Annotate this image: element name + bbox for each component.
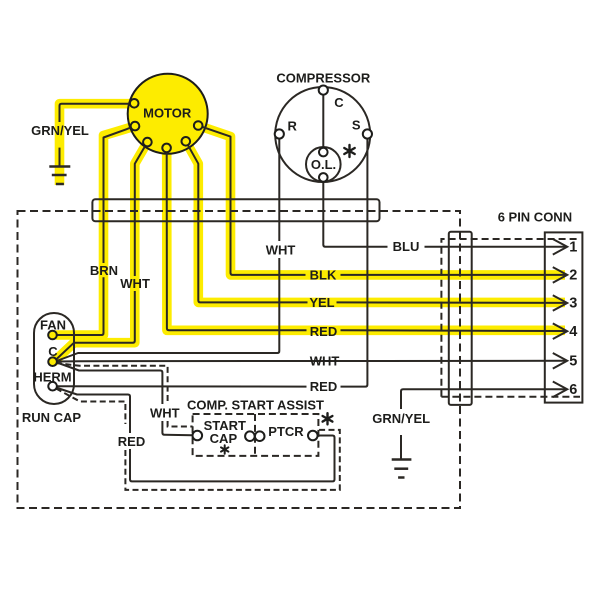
svg-text:RUN CAP: RUN CAP [22,410,82,425]
run cap terminal FAN [48,331,57,340]
svg-text:WHT: WHT [120,276,150,291]
wire WHT run cap C to start cap [57,363,162,405]
wire RED compressor S to HERM [341,139,368,387]
compressor body fill [275,87,370,182]
compressor outline [275,87,370,182]
svg-text:3: 3 [569,296,577,312]
svg-text:RED: RED [118,434,145,449]
pin 1 arrow [553,239,567,255]
motor terminal GRN/YEL [130,99,139,108]
wire BLK motor to pin 2 [198,126,305,275]
svg-text:MOTOR: MOTOR [143,105,192,120]
wire RED HERM to PTCR loop [56,388,130,434]
6 pin connector box [545,232,583,402]
svg-text:R: R [288,119,298,134]
compressor terminal S [363,129,372,138]
O.L. terminal top [319,148,328,157]
svg-text:5: 5 [569,354,577,370]
svg-text:S: S [352,117,361,132]
connector bar [449,232,472,405]
svg-text:HERM: HERM [33,370,71,385]
svg-text:WHT: WHT [266,243,296,258]
wire RED highlight [167,148,565,330]
svg-text:RED: RED [310,379,337,394]
motor terminal BLK [194,121,203,130]
pin 2 arrow [553,267,567,283]
svg-text:BLK: BLK [310,268,337,283]
svg-text:4: 4 [569,324,577,340]
wire YEL highlight [186,141,565,302]
wire WHT compressor R to run cap C [278,139,280,241]
wire BLU O.L. to pin 1 [323,177,387,246]
svg-text:C: C [334,95,344,110]
svg-text:BLU: BLU [393,239,420,254]
wire WHT motor to C [55,291,135,361]
svg-text:C: C [48,344,58,359]
svg-text:CAP: CAP [210,431,238,446]
svg-text:O.L.: O.L. [311,157,336,172]
pin 5 arrow [553,353,567,369]
wire WHT motor highlight [54,142,147,361]
wire WHT run cap C to pin 5 [57,360,567,363]
wire GRN/YEL highlight [60,104,135,185]
wire BRN highlight [56,126,135,335]
asterisk start assist box corner [323,413,333,424]
svg-text:YEL: YEL [309,295,334,310]
motor terminal WHT [143,138,152,147]
pin 3 arrow [553,295,567,311]
wire RED motor to pin 4 [167,148,307,330]
run cap RC outline [34,313,74,404]
ground symbol bottom-right [392,458,412,461]
motor terminal YEL [182,137,191,146]
bus bar [92,199,379,221]
start cap terminal right [245,431,255,441]
dashed wire HERM to PTCR [56,389,125,425]
compressor terminal C [319,86,328,95]
svg-text:COMPRESSOR: COMPRESSOR [276,70,371,85]
connector plug dashed outline [441,239,580,397]
wire BRN [56,277,104,335]
PTCR terminal left [255,431,265,441]
run cap terminal C [48,357,57,366]
pin 6 arrow [553,382,567,398]
svg-text:WHT: WHT [310,354,340,369]
svg-text:1: 1 [569,240,577,256]
svg-text:PTCR: PTCR [268,424,304,439]
svg-text:RED: RED [310,324,337,339]
svg-text:BRN: BRN [90,263,118,278]
wire GRN/YEL top-left [60,104,135,122]
wire BLK highlight [198,126,565,275]
run cap terminal HERM [48,382,57,391]
svg-text:GRN/YEL: GRN/YEL [372,411,430,426]
svg-text:2: 2 [569,268,577,284]
motor M [128,74,208,154]
comp start assist dashed box [193,414,319,456]
ground symbol top-left [49,165,70,168]
compressor overload O.L. [306,147,341,182]
asterisk compressor [344,145,354,157]
start cap terminal left [193,431,203,441]
svg-text:WHT: WHT [150,406,180,421]
run cap RC body fill [34,313,74,404]
svg-text:COMP. START ASSIST: COMP. START ASSIST [187,398,324,413]
O.L. terminal bottom [319,173,328,182]
motor terminal BRN [131,122,140,131]
svg-text:GRN/YEL: GRN/YEL [31,123,89,138]
motor terminal RED [162,144,171,153]
start assist divider dashed [254,414,256,456]
compressor terminal R [275,129,284,138]
svg-text:6: 6 [569,382,577,398]
main dashed enclosure box [18,211,461,508]
PTCR terminal right [308,431,318,441]
svg-text:6 PIN CONN: 6 PIN CONN [498,209,572,224]
dashed wire C to start assist [56,363,168,404]
wire YEL motor to pin 3 [186,141,308,302]
pin 4 arrow [553,323,567,339]
wire compressor C to O.L. [322,95,324,150]
svg-text:FAN: FAN [40,318,66,333]
wire GRN/YEL pin 6 to ground [401,389,567,409]
asterisk start cap [221,445,228,453]
